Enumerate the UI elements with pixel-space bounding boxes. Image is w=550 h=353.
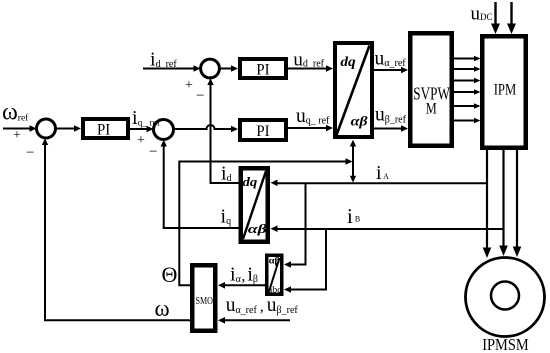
node u_d_ref label bbox=[293, 50, 324, 71]
wire PI3 to dq/alphabeta inverse park bbox=[288, 125, 333, 132]
block SVPWM bbox=[410, 33, 452, 146]
wire IPM to motor phase A bbox=[483, 150, 492, 258]
wire u_DC supply arrows into IPM bbox=[491, 2, 516, 34]
wire inverse park to SVPWM bottom bbox=[374, 125, 408, 132]
svg-text:−: − bbox=[149, 144, 157, 160]
wire i_alpha i_beta from clarke into SMO bbox=[218, 282, 265, 289]
wire PI2 to dq/alphabeta inverse park bbox=[288, 65, 333, 72]
wire i_B feedback line into park transform bbox=[271, 225, 504, 232]
svg-text:ω: ω bbox=[155, 296, 170, 321]
svg-text:abc: abc bbox=[268, 284, 282, 294]
svg-text:αβ: αβ bbox=[248, 221, 267, 236]
wire S1 to PI1 bbox=[56, 125, 82, 132]
svg-text:+: + bbox=[185, 78, 193, 93]
wire SVPWM to IPM pulse arrows x6 bbox=[454, 56, 481, 124]
wire i_d feedback from park to summer S2 bbox=[207, 78, 238, 183]
svg-text:−: − bbox=[26, 145, 34, 161]
node i_q_ref label bbox=[132, 107, 161, 129]
wire i_A tap down into clarke bbox=[284, 183, 306, 267]
block PI2 d-axis current regulator bbox=[240, 59, 286, 79]
svg-text:Θ: Θ bbox=[162, 262, 178, 287]
summing junction S3 bbox=[137, 120, 174, 161]
wire inverse park to SVPWM top bbox=[374, 67, 408, 74]
wire i_A feedback line into park transform bbox=[271, 180, 488, 187]
node u_q_ref label bbox=[296, 106, 330, 127]
wire S3 to PI3 with hop over S2 feedback line bbox=[174, 125, 239, 132]
block U2 park transform to dq bbox=[241, 168, 268, 242]
svg-text:dq: dq bbox=[340, 55, 355, 70]
wire omega_ref input arrow into summer S1 bbox=[3, 125, 37, 132]
node i_d_ref label bbox=[150, 49, 177, 71]
svg-text:+: + bbox=[137, 133, 145, 148]
wire S2 to PI2 bbox=[219, 65, 238, 72]
node theta label bbox=[162, 262, 178, 287]
node i_alpha i_beta label bbox=[230, 264, 258, 286]
wire IPM to motor phase B bbox=[499, 150, 508, 256]
svg-text:dq: dq bbox=[243, 174, 258, 189]
wire PI1 to summer S3 bbox=[130, 126, 154, 133]
summing junction S2 bbox=[185, 59, 219, 104]
node omega label bbox=[155, 296, 170, 321]
wire theta from SMO up and right into inverse park and i_A node bbox=[179, 140, 356, 285]
svg-text:M: M bbox=[426, 101, 437, 118]
svg-text:IPMSM: IPMSM bbox=[482, 335, 529, 353]
block U1 inverse park dq to alphabeta bbox=[335, 43, 372, 137]
node i_B label bbox=[347, 204, 360, 228]
svg-text:PI: PI bbox=[256, 123, 269, 140]
node i_d label bbox=[221, 163, 232, 185]
wire i_q feedback from park to summer S3 bbox=[161, 140, 239, 228]
wire u refs stub into SMO bbox=[218, 317, 290, 324]
svg-text:+: + bbox=[13, 128, 21, 143]
svg-text:PI: PI bbox=[256, 62, 269, 79]
node i_A label bbox=[376, 162, 389, 184]
svg-text:IPM: IPM bbox=[494, 82, 517, 99]
wire i_d_ref input arrow into summer S2 bbox=[143, 65, 201, 72]
svg-text:SMO: SMO bbox=[196, 296, 214, 307]
node u_alpha_ref label bbox=[375, 49, 407, 70]
block SMO sliding mode observer bbox=[192, 265, 215, 331]
svg-text:−: − bbox=[196, 88, 204, 104]
node i_q label bbox=[221, 206, 232, 228]
svg-text:αβ: αβ bbox=[269, 256, 280, 266]
svg-text:αβ: αβ bbox=[351, 115, 369, 130]
block PI1 speed regulator bbox=[83, 119, 128, 139]
node u_beta_ref label bbox=[375, 105, 407, 126]
motor IPMSM bbox=[466, 258, 545, 353]
wire omega from SMO to summer S1 bbox=[42, 138, 190, 320]
block clarke alphabeta abc bbox=[267, 255, 282, 294]
block IPM inverter bbox=[482, 36, 526, 148]
node omega_ref input label bbox=[2, 100, 29, 126]
node u_DC label bbox=[471, 4, 493, 25]
wire IPM to motor phase C bbox=[513, 150, 522, 257]
summing junction S1 bbox=[13, 119, 56, 161]
wire i_B tap down into clarke bbox=[284, 229, 326, 293]
block PI3 q-axis current regulator bbox=[240, 120, 286, 140]
node u_alpha_ref u_beta_ref label bbox=[226, 295, 299, 316]
svg-text:PI: PI bbox=[97, 122, 110, 139]
